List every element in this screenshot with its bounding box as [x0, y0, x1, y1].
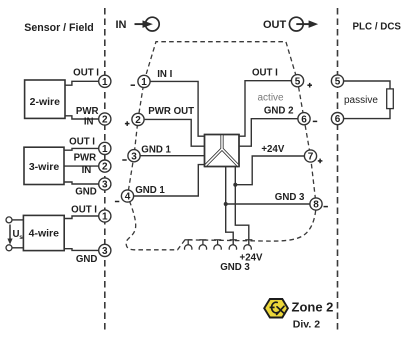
svg-text:1: 1: [102, 77, 108, 88]
svg-text:s: s: [19, 234, 23, 241]
wire box bottom to bus pin 4 (GND 3): [226, 167, 234, 246]
minus sign T8: [324, 206, 328, 208]
wire PLC loop: [344, 81, 390, 89]
wire OUT I: T5 to box: [239, 81, 291, 137]
svg-text:8: 8: [313, 200, 319, 211]
svg-text:Zone 2: Zone 2: [292, 300, 334, 315]
wire 4w GND: [64, 249, 99, 251]
svg-text:GND 2: GND 2: [264, 106, 294, 117]
svg-text:2-wire: 2-wire: [30, 96, 61, 108]
PLC terminal 5: [331, 75, 343, 87]
junction dot GND 3: [224, 202, 228, 206]
wire IN I: T1 to box: [150, 81, 204, 136]
svg-text:OUT I: OUT I: [252, 68, 278, 79]
right boundary dashed line: [337, 8, 339, 331]
wire supply bottom: [12, 247, 24, 249]
4-wire box: [23, 215, 64, 250]
supply circle bottom: [6, 245, 12, 251]
wire 4w OUT I: [64, 216, 99, 219]
bus pin 3: [214, 240, 221, 250]
wire 3w GND: [64, 182, 99, 184]
svg-text:1: 1: [102, 212, 108, 223]
svg-text:2: 2: [102, 115, 108, 126]
terminal 1 (2-wire): [99, 75, 111, 87]
terminal 6 device: [298, 113, 310, 125]
terminal 3 device: [128, 150, 140, 162]
svg-text:PWR: PWR: [74, 152, 97, 163]
minus sign T1: [131, 84, 135, 86]
wire PWR OUT: T2 to box: [145, 119, 205, 146]
wire GND 1: T3 to box: [140, 155, 204, 157]
terminal 2 (3-wire): [99, 160, 111, 172]
svg-text:6: 6: [335, 114, 341, 125]
svg-text:3: 3: [131, 151, 137, 162]
supply circle top: [6, 217, 12, 223]
svg-text:GND: GND: [75, 187, 97, 198]
terminal 1 (3-wire): [99, 142, 111, 154]
plus sign T5: [307, 84, 312, 86]
svg-text:PWR: PWR: [76, 106, 99, 117]
plus sign T2: [125, 123, 130, 125]
wire supply top: [12, 219, 24, 221]
left boundary dashed line: [104, 8, 106, 331]
minus sign T3: [122, 159, 126, 161]
svg-text:Sensor / Field: Sensor / Field: [24, 22, 93, 34]
svg-text:1: 1: [141, 77, 147, 88]
plus sign T7: [318, 160, 323, 162]
wire 2w OUT I: [65, 81, 99, 85]
svg-text:IN: IN: [84, 117, 94, 128]
svg-text:IN: IN: [82, 165, 92, 176]
terminal 3 (4-wire): [99, 244, 111, 256]
terminal 2 device: [132, 113, 144, 125]
minus sign T6: [313, 120, 317, 122]
svg-text:3-wire: 3-wire: [29, 161, 60, 173]
terminal 3 (3-wire): [99, 178, 111, 190]
wire GND 3: T8 to junction: [226, 203, 310, 205]
resistor load: [387, 89, 394, 109]
terminal 4 device: [121, 190, 133, 202]
svg-text:GND 3: GND 3: [275, 192, 305, 203]
svg-text:IN I: IN I: [157, 69, 172, 80]
svg-text:3: 3: [102, 180, 108, 191]
svg-text:2: 2: [102, 162, 108, 173]
svg-text:active: active: [258, 92, 285, 103]
terminal 8 device: [310, 198, 322, 210]
svg-text:GND 1: GND 1: [135, 185, 165, 196]
bus pin 2: [199, 240, 206, 250]
svg-text:IN: IN: [116, 19, 127, 31]
PLC terminal 6: [331, 113, 343, 125]
svg-text:GND: GND: [76, 254, 98, 265]
Us arrow: [9, 225, 11, 240]
terminal 5 device: [291, 75, 303, 87]
wire +24V: T7 to junction: [235, 156, 304, 185]
svg-text:5: 5: [335, 77, 341, 88]
svg-text:3: 3: [102, 246, 108, 257]
terminal 2 (2-wire): [99, 113, 111, 125]
svg-text:Div. 2: Div. 2: [293, 318, 320, 330]
wire 3w PWR IN: [64, 165, 99, 167]
bus pin 5: [244, 240, 253, 250]
wire 3w OUT I: [64, 148, 99, 150]
svg-text:GND 1: GND 1: [141, 144, 171, 155]
IN arrow symbol: [135, 17, 160, 31]
svg-text:OUT I: OUT I: [73, 68, 99, 79]
device dashed outline: [126, 42, 316, 250]
3-wire box: [24, 147, 64, 184]
isolation Y symbol: [205, 135, 239, 167]
junction dot +24V: [233, 183, 237, 187]
svg-text:6: 6: [301, 114, 307, 125]
svg-text:passive: passive: [344, 95, 378, 106]
Ex hexagon logo: [264, 299, 288, 318]
minus sign T4: [115, 201, 119, 203]
wire 2w PWR IN: [65, 116, 99, 119]
svg-text:5: 5: [295, 76, 301, 87]
terminal 7 device: [304, 150, 316, 162]
svg-text:PLC / DCS: PLC / DCS: [353, 21, 402, 32]
bus pin 1: [184, 240, 191, 250]
svg-text:OUT I: OUT I: [71, 204, 97, 215]
svg-text:PWR OUT: PWR OUT: [148, 106, 194, 117]
svg-text:2: 2: [135, 115, 141, 126]
svg-text:OUT: OUT: [263, 19, 287, 31]
wire GND 2: T6 to box: [239, 119, 298, 147]
terminal 1 device: [138, 75, 150, 87]
wire box bottom to bus pin 5 (+24V): [235, 167, 249, 246]
svg-text:GND 3: GND 3: [220, 262, 250, 273]
2-wire box: [25, 80, 65, 118]
svg-text:1: 1: [102, 144, 108, 155]
terminal 1 (4-wire): [99, 210, 111, 222]
OUT arrow symbol: [289, 17, 310, 31]
svg-text:4-wire: 4-wire: [29, 228, 60, 240]
bus pin 4: [229, 240, 237, 250]
isolator box U1: [205, 135, 240, 167]
svg-text:4: 4: [125, 192, 131, 203]
svg-text:OUT I: OUT I: [69, 136, 95, 147]
svg-text:7: 7: [308, 152, 314, 163]
svg-text:+24V: +24V: [261, 144, 284, 155]
wire GND 1: T4 to box: [134, 165, 205, 196]
